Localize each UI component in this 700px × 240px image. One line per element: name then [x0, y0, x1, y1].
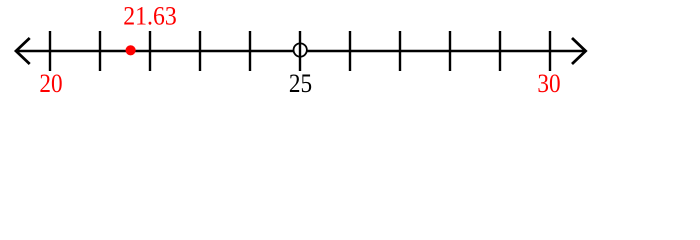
svg-text:30: 30 [537, 69, 560, 98]
svg-text:25: 25 [289, 69, 312, 98]
svg-text:21.63: 21.63 [123, 2, 177, 31]
svg-text:20: 20 [39, 69, 62, 98]
